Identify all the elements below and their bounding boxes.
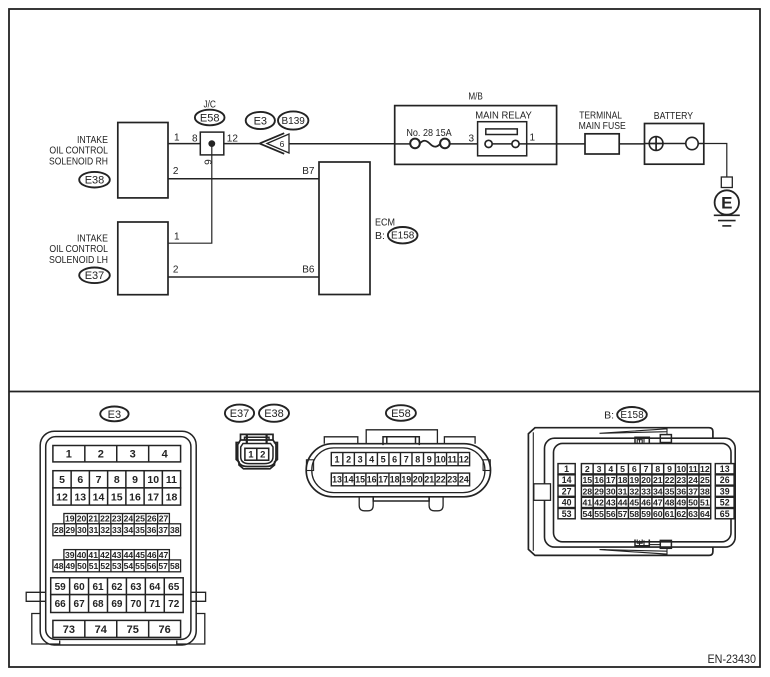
E58 top left tab bbox=[324, 437, 358, 444]
svg-text:23: 23 bbox=[676, 475, 686, 485]
svg-text:J/C: J/C bbox=[203, 99, 216, 110]
svg-text:59: 59 bbox=[641, 509, 651, 519]
E3 pin row 5-11 bbox=[53, 471, 181, 488]
svg-text:36: 36 bbox=[676, 486, 686, 496]
svg-text:3: 3 bbox=[597, 464, 602, 474]
label INTAKE OIL CONTROL SOLENOID LH bbox=[49, 233, 108, 267]
svg-text:31: 31 bbox=[618, 486, 628, 496]
svg-text:No. 28 15A: No. 28 15A bbox=[406, 127, 451, 139]
connector E37/E38 housing bbox=[236, 434, 277, 468]
svg-text:58: 58 bbox=[170, 561, 180, 571]
svg-text:22: 22 bbox=[665, 475, 675, 485]
E58 right pocket bbox=[483, 460, 490, 471]
svg-text:23: 23 bbox=[112, 514, 122, 524]
svg-text:18: 18 bbox=[166, 491, 178, 503]
E3 pin row 73-76 bbox=[53, 620, 181, 637]
svg-text:64: 64 bbox=[149, 582, 161, 593]
svg-text:60: 60 bbox=[653, 509, 663, 519]
E3 pin row 19-27 bbox=[64, 514, 169, 524]
svg-text:25: 25 bbox=[700, 475, 710, 485]
wire battery to ground bbox=[704, 144, 727, 178]
svg-text:41: 41 bbox=[88, 550, 98, 560]
svg-text:34: 34 bbox=[653, 486, 663, 496]
svg-text:15: 15 bbox=[582, 475, 592, 485]
svg-text:54: 54 bbox=[582, 509, 592, 519]
svg-text:46: 46 bbox=[641, 498, 651, 508]
svg-text:62: 62 bbox=[676, 509, 686, 519]
svg-text:21: 21 bbox=[653, 475, 663, 485]
svg-text:53: 53 bbox=[562, 509, 572, 519]
svg-text:32: 32 bbox=[629, 486, 639, 496]
svg-text:20: 20 bbox=[77, 514, 87, 524]
svg-text:1: 1 bbox=[66, 449, 72, 461]
svg-text:14: 14 bbox=[562, 475, 572, 485]
svg-text:37: 37 bbox=[688, 486, 698, 496]
svg-text:20: 20 bbox=[641, 475, 651, 485]
main relay box bbox=[478, 122, 527, 156]
svg-text:B:: B: bbox=[375, 230, 385, 242]
E58 top right tab bbox=[444, 437, 475, 444]
svg-text:E58: E58 bbox=[200, 112, 220, 124]
svg-text:7: 7 bbox=[404, 454, 409, 464]
svg-text:60: 60 bbox=[74, 582, 86, 593]
svg-text:48: 48 bbox=[665, 498, 675, 508]
svg-text:2: 2 bbox=[346, 454, 351, 464]
svg-text:21: 21 bbox=[88, 514, 98, 524]
ECM box bbox=[319, 162, 370, 295]
svg-text:70: 70 bbox=[130, 599, 142, 610]
svg-text:65: 65 bbox=[720, 509, 730, 519]
svg-text:38: 38 bbox=[170, 525, 180, 535]
svg-text:35: 35 bbox=[665, 486, 675, 496]
connector label E58 (bottom) bbox=[386, 405, 416, 421]
terminal main fuse box bbox=[585, 134, 619, 154]
svg-text:1: 1 bbox=[248, 450, 254, 461]
battery internal wire bbox=[645, 143, 704, 145]
svg-text:E37: E37 bbox=[230, 408, 250, 420]
svg-text:B139: B139 bbox=[282, 116, 306, 127]
svg-text:59: 59 bbox=[55, 582, 67, 593]
connector label E37 (bottom) bbox=[225, 405, 254, 422]
svg-text:73: 73 bbox=[63, 624, 75, 636]
E58 pin row 1-12 bbox=[331, 453, 469, 466]
svg-text:33: 33 bbox=[641, 486, 651, 496]
svg-text:38: 38 bbox=[700, 486, 710, 496]
svg-text:40: 40 bbox=[562, 498, 572, 508]
connector label E37 bbox=[79, 268, 110, 284]
battery box bbox=[645, 124, 704, 165]
svg-text:52: 52 bbox=[100, 561, 110, 571]
connector E3 bottom-left bracket bbox=[32, 614, 60, 645]
svg-text:29: 29 bbox=[66, 525, 76, 535]
E3 pin row 28-38 bbox=[53, 524, 181, 536]
E158 pin row 40 / 41-51 / 52 bbox=[558, 497, 575, 507]
svg-text:E158: E158 bbox=[620, 410, 644, 421]
svg-text:75: 75 bbox=[127, 624, 139, 636]
svg-text:44: 44 bbox=[124, 550, 134, 560]
E58 pin row 13-24 bbox=[331, 473, 469, 486]
connector E3 housing bbox=[40, 431, 196, 645]
svg-text:4: 4 bbox=[162, 449, 169, 461]
svg-text:E38: E38 bbox=[85, 175, 105, 187]
svg-text:22: 22 bbox=[436, 475, 446, 485]
svg-text:2: 2 bbox=[260, 450, 265, 461]
svg-text:65: 65 bbox=[168, 582, 180, 593]
svg-text:18: 18 bbox=[618, 475, 628, 485]
svg-text:8: 8 bbox=[415, 454, 420, 464]
svg-text:64: 64 bbox=[700, 509, 710, 519]
svg-text:50: 50 bbox=[688, 498, 698, 508]
svg-text:10: 10 bbox=[436, 454, 446, 464]
svg-text:3: 3 bbox=[468, 134, 474, 145]
svg-text:43: 43 bbox=[606, 498, 616, 508]
svg-text:24: 24 bbox=[459, 475, 469, 485]
svg-text:76: 76 bbox=[159, 624, 171, 636]
E3 pin row 12-18 bbox=[53, 488, 181, 505]
junction connector J/C box bbox=[200, 132, 224, 155]
E158 bottom lever bbox=[600, 548, 668, 554]
svg-text:20: 20 bbox=[413, 475, 423, 485]
E3 pin row 39-47 bbox=[64, 550, 169, 560]
svg-text:11: 11 bbox=[688, 464, 697, 474]
battery negative terminal bbox=[686, 137, 698, 149]
svg-text:18: 18 bbox=[390, 475, 400, 485]
E58 bottom right hook bbox=[429, 497, 443, 511]
E3 pin row 59-65 bbox=[51, 578, 184, 595]
svg-text:24: 24 bbox=[124, 514, 134, 524]
svg-text:41: 41 bbox=[582, 498, 592, 508]
ground E circle bbox=[715, 190, 739, 214]
svg-text:66: 66 bbox=[55, 599, 67, 610]
svg-text:9: 9 bbox=[132, 474, 138, 486]
svg-text:46: 46 bbox=[147, 550, 157, 560]
svg-text:7: 7 bbox=[644, 464, 649, 474]
svg-text:E58: E58 bbox=[391, 408, 411, 420]
svg-text:8: 8 bbox=[655, 464, 660, 474]
svg-text:26: 26 bbox=[720, 475, 730, 485]
svg-text:6: 6 bbox=[632, 464, 637, 474]
svg-text:74: 74 bbox=[95, 624, 108, 636]
svg-text:ECM: ECM bbox=[375, 217, 395, 229]
E3 pin row 48-58 bbox=[53, 560, 181, 572]
svg-text:21: 21 bbox=[424, 475, 434, 485]
divider line bbox=[9, 391, 760, 393]
svg-text:42: 42 bbox=[100, 550, 110, 560]
solenoid LH box (INTAKE OIL CONTROL SOLENOID LH) bbox=[118, 222, 168, 295]
svg-text:13: 13 bbox=[720, 464, 730, 474]
inline connector symbol (triangle, pin 6) bbox=[260, 133, 289, 154]
svg-text:58: 58 bbox=[629, 509, 639, 519]
svg-text:9: 9 bbox=[667, 464, 672, 474]
svg-text:43: 43 bbox=[112, 550, 122, 560]
svg-text:MAIN FUSE: MAIN FUSE bbox=[579, 120, 626, 132]
svg-text:SOLENOID LH: SOLENOID LH bbox=[49, 254, 108, 266]
E158 top lever bbox=[600, 429, 668, 435]
wire terminal main fuse to battery bbox=[619, 143, 644, 145]
E37/E38 pin row 1-2 bbox=[245, 448, 269, 460]
svg-text:48: 48 bbox=[54, 561, 64, 571]
svg-text:15: 15 bbox=[355, 475, 365, 485]
connector label E38 (bottom) bbox=[259, 405, 289, 422]
wire LH pin2 to ECM B6 bbox=[168, 276, 319, 278]
svg-text:35: 35 bbox=[135, 525, 145, 535]
svg-text:10: 10 bbox=[676, 464, 686, 474]
svg-text:50: 50 bbox=[77, 561, 87, 571]
wire J/C to inline connector bbox=[224, 143, 260, 145]
svg-text:16: 16 bbox=[129, 491, 141, 503]
svg-text:MAIN RELAY: MAIN RELAY bbox=[475, 109, 532, 121]
E158 pin row 53 / 54-64 / 65 bbox=[558, 508, 575, 518]
svg-text:E3: E3 bbox=[108, 409, 121, 421]
svg-text:53: 53 bbox=[112, 561, 122, 571]
svg-text:17: 17 bbox=[378, 475, 388, 485]
svg-text:13: 13 bbox=[332, 475, 342, 485]
svg-text:68: 68 bbox=[92, 599, 104, 610]
E3 pin row 66-72 bbox=[51, 595, 184, 613]
connector E3 left tab bbox=[26, 592, 46, 601]
svg-text:1: 1 bbox=[335, 454, 340, 464]
svg-text:12: 12 bbox=[56, 491, 68, 503]
svg-text:6: 6 bbox=[77, 474, 83, 486]
svg-text:4: 4 bbox=[608, 464, 613, 474]
connector E158 housing (double shell) bbox=[545, 438, 736, 547]
svg-text:27: 27 bbox=[562, 486, 572, 496]
E158 pin row 27 / 28-38 / 39 bbox=[558, 486, 575, 496]
ground symbol bbox=[714, 215, 740, 226]
svg-text:29: 29 bbox=[594, 486, 604, 496]
svg-text:56: 56 bbox=[147, 561, 157, 571]
battery positive terminal bbox=[649, 137, 663, 151]
E58 top center tab bbox=[366, 430, 437, 445]
svg-text:63: 63 bbox=[688, 509, 698, 519]
svg-text:55: 55 bbox=[594, 509, 604, 519]
svg-text:28: 28 bbox=[582, 486, 592, 496]
svg-text:32: 32 bbox=[100, 525, 110, 535]
svg-text:25: 25 bbox=[135, 514, 145, 524]
wire J/C pin6 down to LH pin1 bbox=[168, 144, 212, 244]
svg-text:72: 72 bbox=[168, 599, 180, 610]
svg-text:63: 63 bbox=[130, 582, 142, 593]
svg-text:B:: B: bbox=[604, 409, 614, 421]
svg-text:9: 9 bbox=[427, 454, 432, 464]
svg-text:22: 22 bbox=[100, 514, 110, 524]
E158 top center tabs bbox=[635, 435, 671, 444]
svg-text:14: 14 bbox=[344, 475, 354, 485]
svg-text:5: 5 bbox=[59, 474, 65, 486]
svg-text:19: 19 bbox=[629, 475, 639, 485]
E3 pin row 1-4 bbox=[53, 446, 181, 462]
E158 pin row 1 / 2-12 / 13 bbox=[558, 464, 575, 474]
svg-text:24: 24 bbox=[688, 475, 698, 485]
svg-text:3: 3 bbox=[130, 449, 136, 461]
svg-text:61: 61 bbox=[92, 582, 104, 593]
svg-text:62: 62 bbox=[111, 582, 123, 593]
svg-text:5: 5 bbox=[381, 454, 386, 464]
svg-text:3: 3 bbox=[358, 454, 363, 464]
svg-text:2: 2 bbox=[98, 449, 104, 461]
E158 pin row 14 / 15-25 / 26 bbox=[558, 475, 575, 485]
connector label B: E158 (bottom) bbox=[604, 407, 647, 422]
svg-text:5: 5 bbox=[620, 464, 625, 474]
E158 bottom center tabs bbox=[635, 540, 671, 549]
connector E158 outer frame bbox=[528, 428, 713, 556]
connector label E3 (bottom) bbox=[100, 407, 128, 422]
svg-text:2: 2 bbox=[585, 464, 590, 474]
svg-text:12: 12 bbox=[459, 454, 469, 464]
wire inline connector to M/B bbox=[289, 143, 395, 145]
svg-text:6: 6 bbox=[392, 454, 397, 464]
svg-text:61: 61 bbox=[665, 509, 675, 519]
svg-text:7: 7 bbox=[96, 474, 102, 486]
svg-text:45: 45 bbox=[629, 498, 639, 508]
svg-text:13: 13 bbox=[74, 491, 86, 503]
svg-text:19: 19 bbox=[65, 514, 75, 524]
relay contact 1 bbox=[512, 140, 519, 147]
svg-text:40: 40 bbox=[77, 550, 87, 560]
svg-text:45: 45 bbox=[135, 550, 145, 560]
svg-text:56: 56 bbox=[606, 509, 616, 519]
relay coil bbox=[486, 129, 518, 135]
svg-text:EN-23430: EN-23430 bbox=[708, 654, 757, 666]
svg-text:47: 47 bbox=[159, 550, 169, 560]
svg-text:E158: E158 bbox=[391, 231, 415, 242]
svg-text:54: 54 bbox=[124, 561, 134, 571]
junction dot bbox=[208, 140, 215, 147]
svg-text:1: 1 bbox=[174, 232, 180, 243]
svg-text:17: 17 bbox=[147, 491, 159, 503]
svg-text:57: 57 bbox=[618, 509, 628, 519]
svg-text:27: 27 bbox=[159, 514, 169, 524]
svg-text:31: 31 bbox=[89, 525, 99, 535]
svg-text:57: 57 bbox=[158, 561, 168, 571]
svg-text:BATTERY: BATTERY bbox=[654, 110, 693, 122]
svg-text:28: 28 bbox=[54, 525, 64, 535]
E158 left latch block bbox=[534, 484, 551, 501]
svg-text:49: 49 bbox=[66, 561, 76, 571]
svg-text:36: 36 bbox=[147, 525, 157, 535]
svg-text:33: 33 bbox=[112, 525, 122, 535]
relay internal wire bbox=[492, 143, 512, 145]
svg-text:1: 1 bbox=[530, 133, 536, 144]
svg-text:42: 42 bbox=[594, 498, 604, 508]
label INTAKE OIL CONTROL SOLENOID RH bbox=[49, 134, 108, 168]
svg-text:44: 44 bbox=[618, 498, 628, 508]
svg-text:E3: E3 bbox=[254, 115, 267, 127]
connector E3 bottom-right bracket bbox=[177, 614, 205, 645]
svg-text:52: 52 bbox=[720, 498, 730, 508]
svg-text:8: 8 bbox=[192, 134, 198, 145]
svg-text:51: 51 bbox=[89, 561, 99, 571]
svg-text:2: 2 bbox=[173, 166, 179, 177]
wire relay to M/B edge to terminal main fuse bbox=[519, 143, 585, 145]
svg-text:39: 39 bbox=[720, 486, 730, 496]
connector E58 housing bbox=[306, 444, 490, 497]
svg-text:34: 34 bbox=[124, 525, 134, 535]
svg-text:16: 16 bbox=[367, 475, 377, 485]
svg-text:55: 55 bbox=[135, 561, 145, 571]
svg-text:B6: B6 bbox=[302, 265, 315, 276]
svg-text:11: 11 bbox=[166, 474, 177, 486]
connector label E58 bbox=[195, 110, 225, 126]
E58 left pocket bbox=[306, 460, 313, 471]
connector label E3 bbox=[246, 112, 275, 129]
svg-text:51: 51 bbox=[700, 498, 710, 508]
svg-text:49: 49 bbox=[676, 498, 686, 508]
svg-text:39: 39 bbox=[65, 550, 75, 560]
svg-text:23: 23 bbox=[447, 475, 457, 485]
connector label B139 bbox=[278, 111, 308, 129]
svg-text:26: 26 bbox=[147, 514, 157, 524]
svg-text:E37: E37 bbox=[85, 270, 105, 282]
svg-text:30: 30 bbox=[77, 525, 87, 535]
fuse No. 28 15A bbox=[395, 139, 478, 149]
svg-text:6: 6 bbox=[202, 159, 213, 165]
svg-text:47: 47 bbox=[653, 498, 663, 508]
svg-text:37: 37 bbox=[158, 525, 168, 535]
E58 bottom latch bar bbox=[373, 497, 429, 501]
svg-text:M/B: M/B bbox=[468, 91, 483, 103]
svg-text:67: 67 bbox=[74, 599, 86, 610]
M/B box bbox=[395, 106, 557, 165]
svg-text:71: 71 bbox=[149, 599, 161, 610]
connector E3 right tab bbox=[191, 592, 206, 601]
svg-text:16: 16 bbox=[594, 475, 604, 485]
svg-text:14: 14 bbox=[93, 491, 105, 503]
connector label E38 bbox=[79, 172, 110, 188]
wire RH pin2 to ECM B7 bbox=[168, 178, 319, 180]
svg-text:10: 10 bbox=[147, 474, 159, 486]
solenoid RH box (INTAKE OIL CONTROL SOLENOID RH) bbox=[118, 123, 168, 198]
svg-text:69: 69 bbox=[111, 599, 123, 610]
ground connector square bbox=[721, 177, 732, 188]
svg-text:1: 1 bbox=[564, 464, 569, 474]
svg-text:30: 30 bbox=[606, 486, 616, 496]
svg-text:6: 6 bbox=[280, 139, 285, 149]
svg-text:2: 2 bbox=[173, 265, 179, 276]
label TERMINAL MAIN FUSE bbox=[579, 110, 626, 133]
svg-text:15: 15 bbox=[111, 491, 123, 503]
svg-text:B7: B7 bbox=[302, 166, 315, 177]
svg-text:8: 8 bbox=[114, 474, 120, 486]
svg-text:1: 1 bbox=[174, 133, 180, 144]
label B: E158 bbox=[375, 227, 418, 243]
wire RH pin1 to J/C bbox=[168, 143, 200, 145]
svg-text:11: 11 bbox=[448, 454, 458, 464]
E58 bottom left hook bbox=[359, 497, 373, 511]
svg-text:E: E bbox=[721, 194, 732, 213]
svg-text:12: 12 bbox=[700, 464, 710, 474]
svg-text:4: 4 bbox=[369, 454, 374, 464]
svg-text:17: 17 bbox=[606, 475, 616, 485]
relay contact 3 bbox=[485, 140, 492, 147]
svg-text:E38: E38 bbox=[264, 408, 284, 420]
svg-text:19: 19 bbox=[401, 475, 411, 485]
svg-text:SOLENOID RH: SOLENOID RH bbox=[49, 156, 108, 168]
